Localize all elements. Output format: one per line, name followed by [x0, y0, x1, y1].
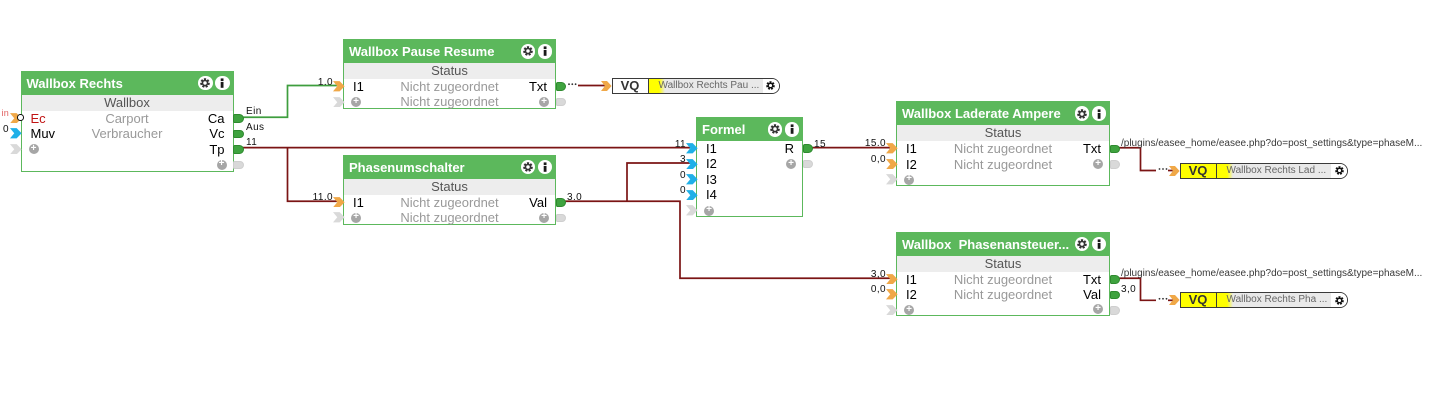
VQ3 input connector: [1169, 295, 1180, 305]
node label Aus: [246, 123, 264, 133]
output spare connector: [556, 214, 567, 223]
VQ1 output box Wallbox Rechts Pau: [612, 78, 780, 94]
input I1 connector: [333, 197, 345, 208]
input I4 connector: [686, 190, 698, 201]
output Vc connector: [233, 130, 244, 139]
node label 11 at Formel I1: [656, 140, 686, 150]
node label URL at Phasenansteuerung Txt: [1121, 269, 1422, 279]
add-output button: [1093, 159, 1103, 169]
wire red Val to Phasenansteuerung I1: [563, 201, 890, 278]
node label 3,0 at Phasenansteuerung I1: [856, 270, 886, 280]
block U1 Wallbox Rechts: [21, 71, 234, 172]
output Txt connector: [1110, 145, 1121, 154]
block U5 Wallbox Laderate Ampere: [896, 101, 1110, 186]
VQ2 output box Wallbox Rechts Lad: [1180, 163, 1349, 179]
add-output button: [786, 159, 796, 169]
input I1 connector: [886, 143, 898, 154]
add-output button: [217, 160, 227, 170]
output Val connector: [1110, 291, 1121, 300]
node label 3 at Formel I2: [656, 155, 686, 165]
input I1 connector: [333, 81, 345, 92]
node label 11 at Tp: [246, 138, 257, 148]
input spare connector: [10, 144, 22, 155]
add-output button: [1093, 304, 1103, 314]
node label 3.0 at Val output: [567, 193, 582, 203]
input spare connector: [686, 205, 698, 216]
output spare connector: [803, 160, 814, 169]
wire red branch to Phasenumschalter I1: [288, 148, 338, 202]
block U3 Phasenumschalter: [343, 155, 556, 225]
wire red Phasenansteuerung Txt to VQ3 with dots: [1118, 278, 1156, 300]
input I2 connector: [886, 289, 898, 300]
node label 0 at Formel I3: [656, 171, 686, 181]
node label 0 at Muv: [3, 125, 9, 135]
node label 11.0 at Phasenumschalter I1: [303, 193, 333, 203]
input I3 connector: [686, 174, 698, 185]
wire red Pause Txt to VQ1 with dots: [568, 83, 576, 85]
add-output button: [539, 213, 549, 223]
add-output button: [539, 97, 549, 107]
node label 0,0 at Laderate I2: [856, 155, 886, 165]
node label in (red): [2, 108, 9, 118]
output spare connector: [233, 161, 244, 170]
node label Ein: [246, 107, 262, 117]
node label 15 at Formel R: [814, 140, 826, 150]
block U6 Wallbox Phasenansteuerung: [896, 232, 1110, 317]
add-input button: [29, 144, 39, 154]
input I2 connector: [886, 159, 898, 170]
output Txt connector: [556, 82, 567, 91]
wire red Formel R to Laderate I1: [810, 147, 890, 149]
input Ec connector: [10, 113, 22, 124]
output spare connector: [1110, 306, 1121, 315]
input Muv connector: [10, 128, 22, 139]
output Tp connector: [233, 145, 244, 154]
node label URL at Laderate Txt: [1121, 139, 1422, 149]
add-input button: [704, 206, 714, 216]
input spare connector: [333, 212, 345, 223]
add-input button: [904, 175, 914, 185]
output R connector: [803, 144, 814, 153]
input spare connector: [333, 97, 345, 108]
wire red Laderate Txt to VQ2 with dots: [1118, 148, 1156, 171]
output spare connector: [1110, 160, 1121, 169]
VQ2 input connector: [1169, 166, 1180, 176]
block U2 Wallbox Pause Resume: [343, 39, 556, 109]
output Txt connector: [1110, 275, 1121, 284]
add-input button: [904, 305, 914, 315]
node label 1.0 at Pause I1: [303, 78, 333, 88]
input I1 connector: [886, 274, 898, 285]
ring on Ec connector: [17, 114, 24, 121]
node label 0 at Formel I4: [656, 186, 686, 196]
input I2 connector: [686, 159, 698, 170]
output Ca connector: [233, 114, 244, 123]
wire green Ca(Ein) to Pause I1: [242, 86, 337, 118]
node label 3,0 at Phasenansteuerung Val: [1121, 285, 1136, 295]
wire red branch up to Formel I2: [627, 163, 690, 201]
node label 0,0 at Phasenansteuerung I2: [856, 285, 886, 295]
input spare connector: [886, 174, 898, 185]
VQ3 output box Wallbox Rechts Pha: [1180, 292, 1349, 308]
input I1 connector: [686, 143, 698, 154]
block U4 Formel: [696, 117, 803, 218]
output Val connector: [556, 198, 567, 207]
node label 15.0 at Laderate I1: [856, 139, 886, 149]
add-input button: [351, 213, 361, 223]
VQ1 input connector: [601, 81, 612, 91]
wire red Tp to Formel I1: [242, 147, 690, 149]
add-input button: [351, 97, 361, 107]
output spare connector: [556, 98, 567, 107]
input spare connector: [886, 305, 898, 316]
